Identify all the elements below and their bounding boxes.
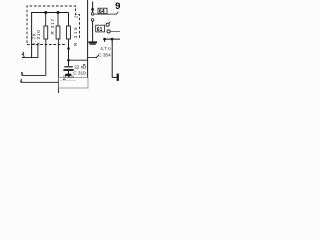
terminal bar on box top (65, 74, 71, 76)
svg-text:R 310: R 310 (36, 29, 41, 45)
connector pin circle 61 lower (107, 30, 110, 33)
svg-text:64: 64 (99, 9, 105, 15)
resistor R1 (45, 13, 47, 26)
wire: line to terminal 4 (21, 81, 59, 83)
svg-text:2: 2 (63, 75, 67, 82)
wire: tall vertical bus right (87, 0, 89, 78)
ground (88, 41, 97, 43)
dashed enclosure bottom edge (27, 44, 65, 46)
device box 219 (59, 78, 89, 88)
wire: R1 lower lead (45, 39, 47, 75)
wire: 61 line right (110, 30, 120, 32)
node dot left (103, 38, 106, 41)
dashed enclosure border (left, top, stepped right) (27, 6, 80, 43)
resistor R316 label (73, 15, 78, 46)
connector pin circle lower (91, 19, 94, 22)
resistor R310 label column (31, 29, 40, 45)
node junction to right branch (67, 59, 70, 62)
wire: down and right to terminal (112, 39, 117, 77)
svg-text:C 354: C 354 (98, 52, 111, 57)
node: bus junction R1 (44, 11, 47, 14)
wire: branch to vertical bus (69, 59, 88, 61)
connector pin circle upper (91, 13, 94, 16)
svg-text:9: 9 (115, 1, 120, 12)
wire: left arrow line (22, 44, 38, 58)
svg-text:4: 4 (20, 78, 23, 83)
connector pin circle 61 upper (106, 23, 109, 26)
terminal bar right (117, 74, 119, 81)
svg-text:4,7 n: 4,7 n (100, 46, 111, 51)
wire: arrow stub from bus (88, 56, 96, 58)
node junction on R3 lead (67, 47, 70, 50)
wire: top bus (32, 13, 69, 58)
terminal box 64 (98, 8, 107, 13)
wire: top right vertical (92, 2, 94, 13)
wire: C354 net (104, 38, 121, 40)
capacitor C319 (64, 66, 73, 68)
svg-text:R 317: R 317 (50, 18, 55, 35)
svg-text:61: 61 (97, 27, 103, 33)
wire: R2 lower lead (57, 39, 59, 93)
svg-text:2: 2 (73, 15, 78, 18)
wire: R3 lower lead (68, 39, 70, 66)
resistor R3 (68, 13, 70, 27)
terminal box 61 (96, 25, 105, 32)
node dot right (111, 38, 114, 41)
wire: down to ground (92, 22, 94, 42)
svg-text:319: 319 (68, 75, 74, 79)
node dot (91, 8, 94, 11)
wire: line to terminal 5 (22, 74, 46, 76)
svg-text:C 319: C 319 (73, 71, 86, 76)
resistor R2 (57, 13, 59, 26)
svg-text:5: 5 (21, 71, 24, 76)
wire: terminal 64 line (94, 13, 116, 15)
node: bus junction R2 (57, 11, 60, 14)
svg-text:R 316: R 316 (73, 26, 78, 46)
